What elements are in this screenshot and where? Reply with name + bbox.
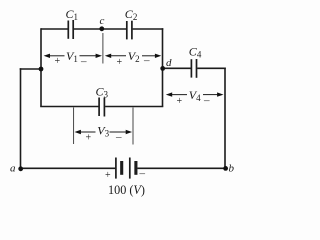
node a <box>18 166 23 171</box>
svg-text:–: – <box>115 131 122 143</box>
capacitor C3 <box>99 98 104 117</box>
wire C3 rail right segment <box>105 106 163 108</box>
wire outer left horizontal <box>20 68 42 70</box>
battery 100 V <box>116 158 136 179</box>
svg-text:–: – <box>80 56 87 68</box>
svg-text:+: + <box>55 56 61 67</box>
svg-text:V4: V4 <box>189 88 201 103</box>
capacitor C1 <box>68 20 73 39</box>
svg-text:b: b <box>229 163 235 175</box>
wire top rail right segment <box>133 28 164 30</box>
svg-text:C2: C2 <box>125 7 138 22</box>
svg-text:C3: C3 <box>96 85 109 100</box>
wire top rail left segment <box>41 28 68 30</box>
tick V3 right <box>132 108 134 145</box>
wire right inner vertical (c2 corner to d to C3 corner) <box>162 28 164 106</box>
wire C4 to right edge <box>197 67 226 69</box>
svg-text:C4: C4 <box>189 45 202 60</box>
svg-text:a: a <box>10 163 16 175</box>
node junction left <box>39 67 44 72</box>
wire bottom rail left of battery <box>21 167 116 169</box>
wire C3 rail left segment <box>40 106 98 108</box>
svg-text:V3: V3 <box>97 123 109 138</box>
capacitor C4 <box>191 59 196 78</box>
wire left outer vertical <box>20 68 22 169</box>
svg-text:–: – <box>139 168 146 180</box>
arrow V2 <box>105 54 162 58</box>
svg-text:V1: V1 <box>66 49 78 64</box>
wire left inner vertical <box>40 28 42 106</box>
svg-text:–: – <box>143 55 150 67</box>
svg-text:–: – <box>203 95 210 107</box>
arrow V1 <box>44 54 102 58</box>
arrow V3 <box>75 130 133 134</box>
svg-text:+: + <box>105 170 111 181</box>
svg-text:+: + <box>117 57 123 68</box>
wire right outer vertical <box>224 68 226 169</box>
svg-text:C1: C1 <box>66 7 79 22</box>
wire top rail middle segment <box>74 28 126 30</box>
svg-text:100 (V): 100 (V) <box>108 183 145 197</box>
svg-text:V2: V2 <box>128 49 140 64</box>
node d <box>160 66 165 71</box>
svg-text:+: + <box>177 96 183 107</box>
tick V3 left <box>73 108 75 145</box>
svg-text:c: c <box>100 15 105 27</box>
arrow V4 <box>166 92 224 96</box>
capacitor C2 <box>127 21 132 40</box>
wire d stub to C4 <box>163 67 191 69</box>
svg-text:+: + <box>86 133 92 144</box>
wire bottom rail right of battery <box>138 167 227 169</box>
node b <box>223 166 228 171</box>
svg-text:d: d <box>166 57 172 69</box>
tick below node c <box>102 33 104 64</box>
node c <box>99 26 104 31</box>
